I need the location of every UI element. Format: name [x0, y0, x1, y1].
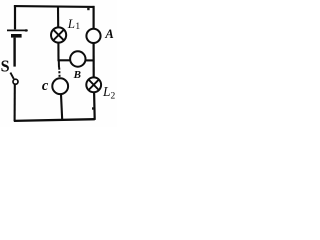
wire battery to switch: [13, 38, 15, 67]
wire L2 to bottom-right corner: [93, 92, 96, 120]
wire switch to bottom-left corner: [14, 84, 16, 121]
meter circle B: [70, 51, 85, 66]
svg-text:B: B: [73, 69, 81, 81]
svg-text:L: L: [67, 16, 75, 31]
wire node B left segment: [59, 59, 71, 61]
wire middle vertical top (to L1): [57, 7, 59, 28]
meter circle A: [86, 29, 100, 43]
node speck near top-right corner: [87, 8, 89, 10]
switch S pivot circle: [13, 79, 18, 84]
meter circle C: [52, 78, 68, 94]
wire node to C dashed segment: [58, 61, 60, 68]
switch S blade: [10, 73, 13, 79]
svg-text:S: S: [1, 57, 10, 76]
lamp L1 circle: [51, 27, 66, 42]
svg-text:c: c: [42, 78, 49, 94]
svg-text:2: 2: [111, 92, 116, 102]
svg-text:L: L: [102, 84, 111, 99]
svg-text:1: 1: [75, 22, 80, 32]
lamp L1 cross: [53, 30, 64, 41]
lamp L2 cross: [89, 80, 99, 90]
wire right vertical upper (to A): [92, 6, 94, 29]
wire L1 to node junction: [57, 43, 59, 62]
wire bottom horizontal: [14, 119, 95, 121]
node speck on right wire: [92, 107, 94, 109]
wire left vertical upper (battery top lead): [14, 5, 16, 29]
wire top horizontal: [14, 5, 95, 8]
wire node B right segment: [86, 59, 95, 61]
battery short plate (-): [11, 34, 22, 38]
battery long plate (+): [7, 29, 28, 31]
wire C to bottom: [61, 94, 62, 120]
battery plate blob: [25, 29, 28, 31]
lamp L2 circle: [86, 77, 101, 92]
svg-text:A: A: [104, 26, 114, 41]
wire A to L2: [92, 43, 94, 77]
